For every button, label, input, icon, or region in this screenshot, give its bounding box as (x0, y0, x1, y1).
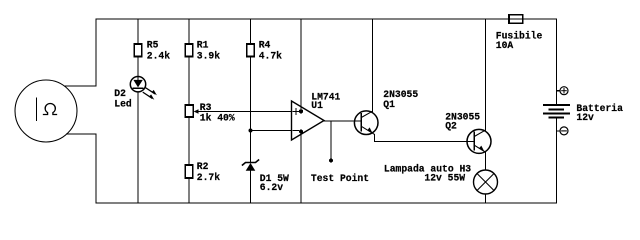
node test point dot (329, 158, 333, 162)
wire Q1 emitter to Q2 base (374, 134, 474, 141)
wire op-amp output to Q1 base (324, 120, 361, 122)
battery plus terminal (557, 87, 569, 95)
node V+ pin dot (299, 109, 303, 113)
svg-text:R4: R4 (259, 40, 271, 51)
wire R4 down to zener D1 (250, 57, 252, 163)
svg-text:R5: R5 (147, 40, 159, 51)
wire R3 wiper to op-amp + input (198, 111, 292, 113)
node V- pin dot (299, 130, 303, 134)
svg-text:6.2v: 6.2v (260, 182, 283, 193)
wire R3 to R2 (188, 117, 190, 165)
wire R5 branch from top rail (137, 19, 139, 44)
battery B1 plates (544, 105, 569, 118)
svg-text:4.7k: 4.7k (259, 50, 282, 61)
transistor Q2 (467, 129, 491, 153)
node junction at minus input branch (248, 128, 252, 132)
svg-text:R3: R3 (200, 102, 212, 113)
svg-text:Led: Led (114, 98, 132, 109)
LED D2 (130, 77, 157, 100)
wire bottom ground rail (96, 202, 557, 204)
zener diode D1 (243, 160, 259, 171)
wire Q1 collector to top rail (371, 19, 373, 111)
wire generator top stub to top rail (65, 19, 97, 86)
transistor Q1 (354, 111, 378, 135)
potentiometer R3 (185, 105, 198, 117)
wire D1 to bottom rail (250, 171, 252, 203)
svg-text:R1: R1 (197, 40, 209, 51)
svg-text:3.9k: 3.9k (197, 50, 220, 61)
wire test point stub (330, 121, 332, 160)
svg-text:12v 55W: 12v 55W (424, 172, 465, 183)
wire junction to op-amp minus input (251, 130, 292, 132)
svg-text:D2: D2 (114, 88, 126, 99)
svg-text:2.7k: 2.7k (197, 172, 220, 183)
svg-text:12v: 12v (576, 112, 594, 123)
svg-text:2.4k: 2.4k (147, 50, 170, 61)
battery minus terminal (557, 127, 569, 135)
wire generator bottom stub to bottom rail (67, 134, 97, 203)
svg-text:Q2: Q2 (445, 121, 457, 132)
wire Q2 collector to top rail (484, 19, 486, 130)
svg-text:1k 40%: 1k 40% (200, 112, 235, 123)
resistor R5 (134, 44, 142, 57)
wire R1 to R3 (188, 57, 190, 106)
fuse F1 (509, 15, 523, 23)
wire Q2 emitter to lamp (484, 152, 486, 170)
svg-text:10A: 10A (496, 40, 514, 51)
resistor R4 (247, 44, 255, 57)
lamp H3 (474, 170, 498, 194)
wire op-amp V- supply to bottom rail (300, 132, 302, 203)
wire R4 branch from top rail (250, 19, 252, 44)
wire battery negative lead (556, 118, 558, 204)
op-amp U1 (292, 101, 325, 140)
svg-text:Test Point: Test Point (311, 173, 369, 184)
generator G1 (15, 80, 77, 142)
resistor R1 (185, 44, 193, 57)
svg-text:R2: R2 (197, 161, 209, 172)
wire R5 to LED D2 (137, 57, 139, 77)
wire R2 to bottom rail (188, 178, 190, 203)
wire lamp to bottom rail (485, 194, 487, 203)
svg-text:Q1: Q1 (383, 99, 395, 110)
resistor R2 (185, 165, 193, 178)
wire R1 branch from top rail (188, 19, 190, 44)
wire top supply rail (96, 18, 557, 20)
wire op-amp V+ supply from top rail (300, 19, 302, 111)
svg-text:U1: U1 (311, 100, 323, 111)
wire battery positive lead (556, 19, 558, 105)
wire LED to bottom rail (137, 92, 139, 203)
